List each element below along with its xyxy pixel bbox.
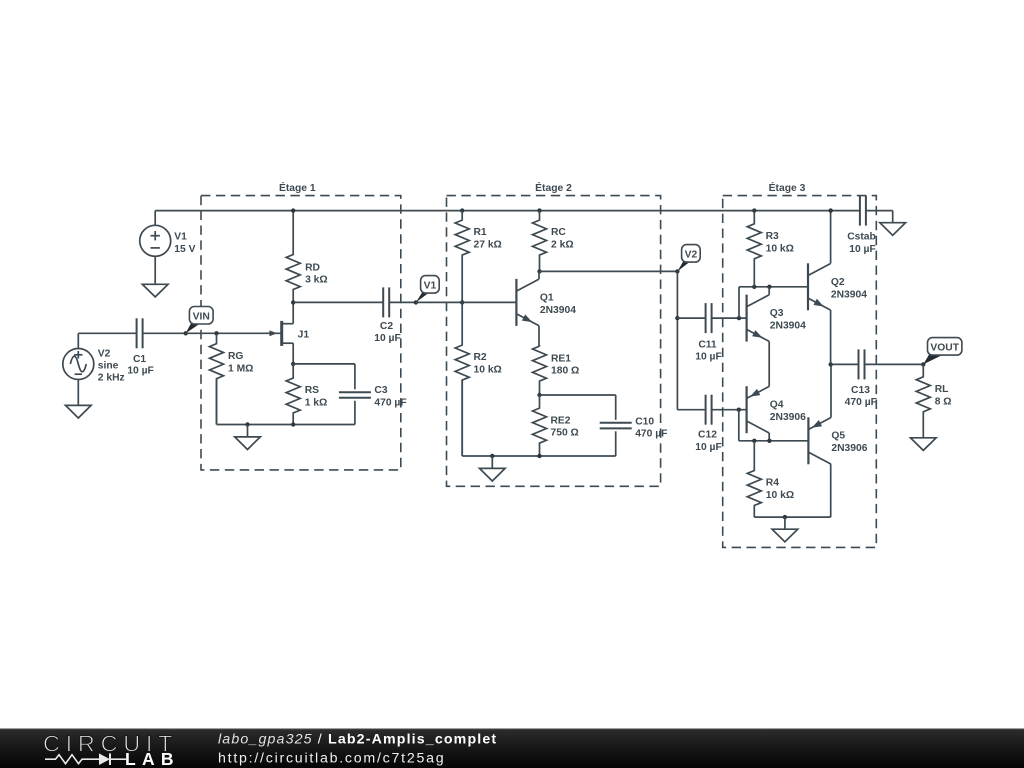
node output junction [829,362,833,366]
svg-text:RG: RG [228,351,243,362]
wire C11 to Q3 base [712,317,747,319]
svg-text:10 µF: 10 µF [849,244,876,255]
resistor RD 3k [286,211,327,303]
svg-text:V2: V2 [685,250,698,261]
wire V+ rail [155,210,860,212]
transistor Q5 2N3906 [808,364,867,464]
CIRCUIT LAB logo [43,731,180,768]
svg-text:R4: R4 [766,478,779,489]
svg-text:10 µF: 10 µF [695,352,722,363]
resistor RE1 180 [533,346,580,395]
transistor Q1 2N3904 [516,271,576,346]
wire V2 top [78,333,136,348]
svg-text:2N3904: 2N3904 [770,320,806,331]
svg-text:10 µF: 10 µF [127,366,154,377]
svg-text:RS: RS [305,385,319,396]
svg-text:sine: sine [98,360,119,371]
node Q3 base junction [737,316,741,320]
wire V2 column down [677,271,705,409]
svg-text:Étage 2: Étage 2 [535,181,572,194]
sine source V2 2kHz [63,348,125,383]
svg-text:RC: RC [551,227,566,238]
svg-text:V2: V2 [98,348,111,359]
svg-text:http://circuitlab.com/c7t25ag: http://circuitlab.com/c7t25ag [218,751,445,767]
svg-text:1 MΩ: 1 MΩ [228,363,253,374]
capacitor C1 10uF [127,318,154,376]
wire C10 bottom [615,431,617,456]
wire C12 to Q4 base [712,409,747,411]
node R1 R2 junction [460,300,464,304]
label Etage 1 [279,181,316,194]
svg-text:RE2: RE2 [551,415,571,426]
svg-text:15 V: 15 V [174,244,195,255]
ground below RL [911,438,937,451]
wire V2 node to C11 [677,317,705,319]
ground below V2 [66,405,92,418]
svg-text:R1: R1 [474,227,487,238]
node VOUT flag [921,338,962,367]
svg-text:2N3904: 2N3904 [540,305,576,316]
svg-text:Étage 3: Étage 3 [769,181,806,194]
svg-text:10 µF: 10 µF [374,333,401,344]
node stage2 ground junction [490,454,494,458]
wire stage2 bottom row [462,380,616,456]
svg-text:C1: C1 [133,354,146,365]
svg-text:Cstab: Cstab [847,232,876,243]
wire VIN to J1 gate [186,332,281,334]
svg-text:470 µF: 470 µF [845,397,877,408]
svg-text:470 µF: 470 µF [374,398,406,409]
capacitor C10 470uF [600,416,668,439]
capacitor Cstab 10uF [847,196,876,255]
svg-text:750 Ω: 750 Ω [551,428,579,439]
resistor RC 2k [533,211,574,272]
resistor R2 10k [455,302,502,456]
svg-text:C11: C11 [698,339,717,350]
wire stage1 bottom row [217,379,355,425]
node R4 top junction [752,439,756,443]
svg-text:C13: C13 [851,385,870,396]
wire stage3 bottom row [754,464,830,517]
svg-text:VIN: VIN [193,311,210,322]
node stage1 ground junction [245,422,249,426]
node stage3 ground junction [783,515,787,519]
wire stage3 ground stub [784,517,786,529]
footer title text [218,731,497,766]
node RC collector junction [537,269,541,273]
dashed box Etage 3 [723,196,877,548]
transistor Q3 2N3904 [747,287,807,387]
svg-text:180 Ω: 180 Ω [551,366,579,377]
svg-text:8 Ω: 8 Ω [935,396,952,407]
capacitor C2 10uF [374,287,401,344]
transistor Q2 2N3904 [808,211,867,365]
wire source node to C3 [293,364,355,389]
wire C1 to VIN node [143,332,186,334]
node R3 top on rail [752,208,756,212]
wire C2 to V1 flag [389,301,416,303]
svg-text:V1: V1 [424,281,437,292]
svg-text:V1: V1 [174,232,187,243]
svg-text:Étage 1: Étage 1 [279,181,316,194]
node RE2 bottom [537,454,541,458]
svg-text:VOUT: VOUT [930,343,959,354]
wire stage1 ground stub [247,425,249,437]
wire Q3 base-collector tie [739,287,808,318]
wire Cstab to ground [866,211,893,223]
node V2 flag [675,245,700,274]
svg-text:2N3906: 2N3906 [770,412,806,423]
resistor RL 8ohm [916,364,951,437]
svg-text:R2: R2 [474,352,487,363]
node RG top junction [214,331,218,335]
footer bar [0,729,1024,768]
svg-text:J1: J1 [298,330,310,341]
transistor Q4 2N3906 [747,386,807,441]
svg-text:RL: RL [935,384,949,395]
voltage source V1 15V [140,225,196,256]
svg-text:2N3906: 2N3906 [831,443,867,454]
node VIN flag [184,307,214,336]
svg-text:Q2: Q2 [831,277,845,288]
svg-text:labo_gpa325 / Lab2-Amplis_comp: labo_gpa325 / Lab2-Amplis_complet [218,731,497,747]
node Q2 collector on rail [829,208,833,212]
wire C3 bottom [354,401,356,425]
wire V1 flag to R1 column [416,301,462,303]
svg-text:R3: R3 [766,231,779,242]
svg-text:RE1: RE1 [551,353,571,364]
wire drain row to C2 [293,301,383,303]
node RD drain junction [291,300,295,304]
svg-text:LAB: LAB [125,749,180,768]
svg-text:1 kΩ: 1 kΩ [305,398,328,409]
svg-text:C3: C3 [374,385,387,396]
svg-text:C10: C10 [635,416,654,427]
node RC top on rail [537,208,541,212]
label Etage 2 [535,181,572,194]
wire V2 to ground [77,380,79,406]
node RD top on rail [291,208,295,212]
svg-text:2N3904: 2N3904 [831,289,867,300]
node R1 top on rail [460,208,464,212]
svg-text:C2: C2 [380,321,393,332]
svg-text:Q5: Q5 [831,431,845,442]
capacitor C3 470uF [339,385,407,408]
wire V1 to rail [154,211,156,226]
capacitor C11 10uF [695,303,722,363]
ground stage1 [235,437,261,450]
resistor RG 1M [210,333,254,424]
wire collector row to V2 flag [540,270,678,272]
svg-text:2 kΩ: 2 kΩ [551,240,574,251]
node Q3 collector junction [767,285,771,289]
node Q4 collector junction [767,439,771,443]
resistor R3 10k [747,211,794,287]
svg-text:10 kΩ: 10 kΩ [474,365,502,376]
ground below V1 [142,284,168,297]
wire stage2 ground stub [491,456,493,468]
svg-text:2 kHz: 2 kHz [98,372,125,383]
capacitor C13 470uF [845,349,877,408]
svg-text:10 kΩ: 10 kΩ [766,490,794,501]
wire base row to Q1 [462,301,516,303]
wire C13 to VOUT [865,363,924,365]
resistor RS 1k [286,364,327,425]
svg-text:10 µF: 10 µF [695,442,722,453]
svg-text:RD: RD [305,262,320,273]
resistor R4 10k [747,441,794,517]
svg-text:Q1: Q1 [540,293,554,304]
svg-text:Q4: Q4 [770,400,784,411]
svg-text:Q3: Q3 [770,308,784,319]
transistor J1 JFET [269,302,309,364]
wire Q4 base-collector tie [739,410,808,441]
svg-text:10 kΩ: 10 kΩ [766,243,794,254]
node RS bottom [291,422,295,426]
resistor RE2 750 [533,395,579,456]
svg-text:3 kΩ: 3 kΩ [305,275,328,286]
node Q4 base junction [737,408,741,412]
dashed box Etage 1 [201,196,401,470]
wire RE node to C10 [540,395,616,420]
svg-text:C12: C12 [698,430,717,441]
resistor R1 27k [455,211,502,303]
node V2 to C11 junction [675,316,679,320]
ground stage2 [480,468,506,481]
dashed box Etage 2 [447,196,661,487]
node R3 bottom junction [752,285,756,289]
node V1 flag [414,276,440,305]
label Etage 3 [769,181,806,194]
wire V1 to ground [154,256,156,284]
node RE1 RE2 junction [537,393,541,397]
ground top right [880,223,906,236]
node J1 source junction [291,362,295,366]
wire output to C13 [831,363,859,365]
ground stage3 [772,529,798,542]
capacitor C12 10uF [695,395,722,453]
svg-text:27 kΩ: 27 kΩ [474,240,502,251]
svg-text:470 µF: 470 µF [635,429,667,440]
